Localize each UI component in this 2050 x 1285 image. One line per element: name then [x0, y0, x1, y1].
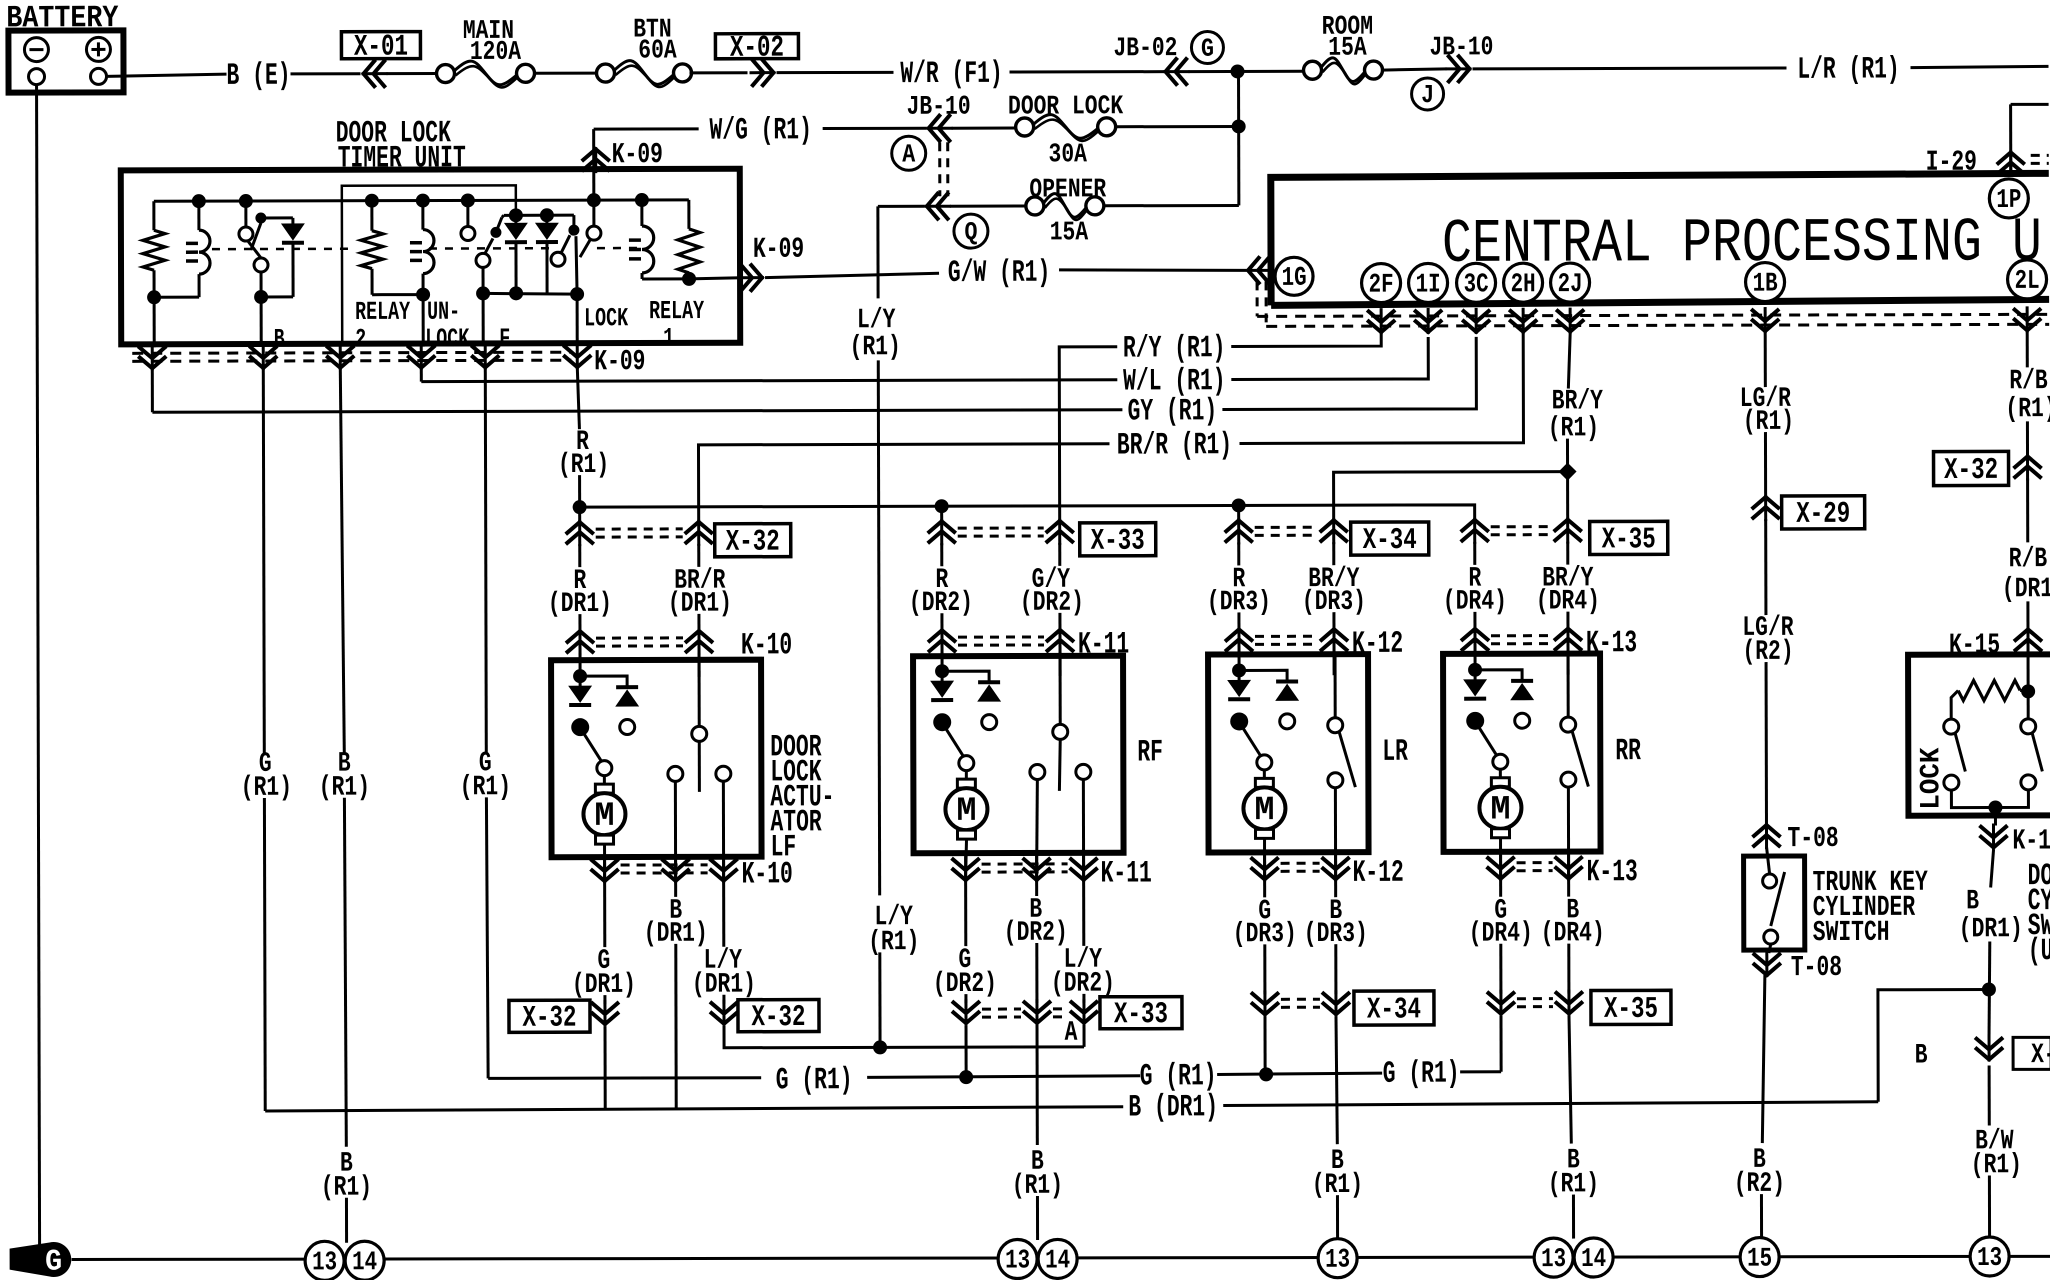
svg-text:G (R1): G (R1) — [1383, 1057, 1460, 1092]
svg-text:X-35: X-35 — [1602, 523, 1656, 557]
svg-text:X-34: X-34 — [1367, 993, 1421, 1027]
svg-text:LR: LR — [1382, 735, 1408, 770]
svg-text:B: B — [1966, 886, 1979, 917]
svg-text:RELAY: RELAY — [355, 297, 410, 327]
svg-text:(R1): (R1) — [850, 332, 901, 363]
svg-text:L/R (R1): L/R (R1) — [1797, 52, 1899, 87]
svg-text:(R1): (R1) — [2005, 394, 2050, 425]
svg-text:(R2): (R2) — [1742, 637, 1793, 668]
svg-text:X-: X- — [2031, 1040, 2050, 1071]
svg-text:14: 14 — [1581, 1245, 1606, 1275]
svg-text:2J: 2J — [1558, 270, 1583, 300]
svg-text:13: 13 — [1005, 1246, 1030, 1276]
svg-text:RELAY: RELAY — [649, 296, 704, 326]
svg-text:(DR2): (DR2) — [1020, 588, 1084, 619]
svg-text:W/R (F1): W/R (F1) — [900, 57, 1002, 92]
svg-text:Q: Q — [964, 217, 977, 247]
svg-text:X-35: X-35 — [1604, 993, 1658, 1027]
svg-text:A: A — [1065, 1018, 1078, 1049]
svg-text:M: M — [594, 798, 614, 836]
svg-text:2: 2 — [355, 324, 366, 354]
svg-text:LOCK: LOCK — [1916, 747, 1947, 809]
svg-text:W/G (R1): W/G (R1) — [709, 113, 811, 148]
svg-text:G (R1): G (R1) — [776, 1063, 853, 1098]
svg-text:30A: 30A — [1048, 140, 1087, 170]
svg-text:2L: 2L — [2015, 267, 2040, 297]
svg-text:R/B: R/B — [2009, 366, 2048, 397]
svg-text:X-02: X-02 — [730, 32, 784, 66]
svg-text:1I: 1I — [1416, 270, 1441, 300]
svg-text:13: 13 — [1541, 1245, 1566, 1275]
svg-text:B (E): B (E) — [226, 59, 290, 94]
svg-text:J: J — [1421, 80, 1434, 110]
svg-text:K-1: K-1 — [2012, 824, 2050, 857]
svg-text:F: F — [499, 324, 510, 354]
svg-text:G: G — [1201, 34, 1214, 64]
svg-text:R/Y (R1): R/Y (R1) — [1123, 331, 1225, 366]
svg-text:60A: 60A — [638, 36, 677, 66]
svg-text:(DR1): (DR1) — [1959, 914, 2023, 945]
svg-text:K-09: K-09 — [612, 138, 663, 171]
svg-text:1: 1 — [663, 323, 674, 353]
svg-text:(R1): (R1) — [1548, 413, 1599, 444]
svg-text:(DR1): (DR1) — [2002, 574, 2050, 605]
svg-text:1B: 1B — [1753, 270, 1778, 300]
svg-text:3C: 3C — [1464, 270, 1489, 300]
svg-text:UN-: UN- — [427, 297, 460, 327]
svg-text:X-32: X-32 — [726, 526, 780, 560]
svg-text:RF: RF — [1137, 735, 1163, 770]
svg-text:K-11: K-11 — [1101, 856, 1152, 891]
svg-text:2F: 2F — [1369, 271, 1394, 301]
svg-text:15A: 15A — [1328, 34, 1367, 64]
svg-text:15: 15 — [1747, 1245, 1772, 1275]
svg-text:X-32: X-32 — [522, 1002, 576, 1036]
svg-text:13: 13 — [1325, 1246, 1350, 1276]
svg-text:15A: 15A — [1050, 218, 1089, 248]
svg-text:M: M — [1490, 791, 1510, 829]
svg-text:K-09: K-09 — [753, 233, 804, 266]
svg-text:X-33: X-33 — [1114, 998, 1168, 1032]
svg-text:(R1): (R1) — [241, 773, 292, 804]
svg-text:(R1): (R1) — [558, 450, 609, 481]
svg-text:GY (R1): GY (R1) — [1128, 394, 1218, 429]
svg-text:T-08: T-08 — [1787, 822, 1838, 855]
svg-text:120A: 120A — [470, 38, 522, 68]
svg-text:T-08: T-08 — [1791, 951, 1842, 984]
svg-text:G/W (R1): G/W (R1) — [948, 256, 1050, 291]
svg-text:1P: 1P — [1996, 186, 2021, 216]
svg-text:BR/R (R1): BR/R (R1) — [1117, 428, 1232, 463]
svg-text:X-32: X-32 — [751, 1001, 805, 1035]
svg-text:K-13: K-13 — [1587, 855, 1638, 890]
svg-text:B (DR1): B (DR1) — [1128, 1090, 1218, 1125]
svg-text:B: B — [1915, 1040, 1928, 1071]
svg-text:X-29: X-29 — [1796, 498, 1850, 532]
svg-text:W/L (R1): W/L (R1) — [1123, 364, 1225, 399]
svg-text:X-32: X-32 — [1944, 454, 1998, 488]
svg-text:G (R1): G (R1) — [1140, 1059, 1217, 1094]
svg-text:(R2): (R2) — [1734, 1169, 1785, 1200]
svg-text:2H: 2H — [1511, 270, 1536, 300]
svg-text:14: 14 — [352, 1248, 377, 1278]
svg-text:X-34: X-34 — [1363, 524, 1417, 558]
svg-text:1G: 1G — [1282, 264, 1307, 294]
svg-text:(R1): (R1) — [1743, 407, 1794, 438]
svg-text:K-10: K-10 — [742, 857, 793, 892]
svg-text:A: A — [902, 139, 915, 169]
svg-text:SWITCH: SWITCH — [1813, 916, 1890, 949]
svg-text:I-29: I-29 — [1926, 146, 1977, 179]
svg-text:R/B: R/B — [2009, 544, 2048, 575]
svg-text:(U: (U — [2028, 934, 2050, 969]
svg-text:G: G — [45, 1246, 62, 1280]
svg-text:X-01: X-01 — [354, 31, 408, 65]
svg-text:X-33: X-33 — [1091, 525, 1145, 559]
svg-text:(R1): (R1) — [868, 927, 919, 958]
svg-text:LOCK: LOCK — [584, 303, 628, 333]
svg-text:(R1): (R1) — [1971, 1150, 2022, 1181]
svg-text:M: M — [1254, 792, 1274, 830]
svg-text:K-09: K-09 — [594, 345, 645, 378]
svg-text:13: 13 — [312, 1248, 337, 1278]
svg-text:K-12: K-12 — [1353, 856, 1404, 891]
svg-text:RR: RR — [1615, 734, 1641, 769]
svg-text:M: M — [956, 793, 976, 831]
svg-text:(DR4): (DR4) — [1541, 918, 1605, 949]
svg-text:13: 13 — [1977, 1244, 2002, 1274]
svg-text:14: 14 — [1045, 1246, 1070, 1276]
svg-text:JB-02: JB-02 — [1113, 34, 1177, 64]
